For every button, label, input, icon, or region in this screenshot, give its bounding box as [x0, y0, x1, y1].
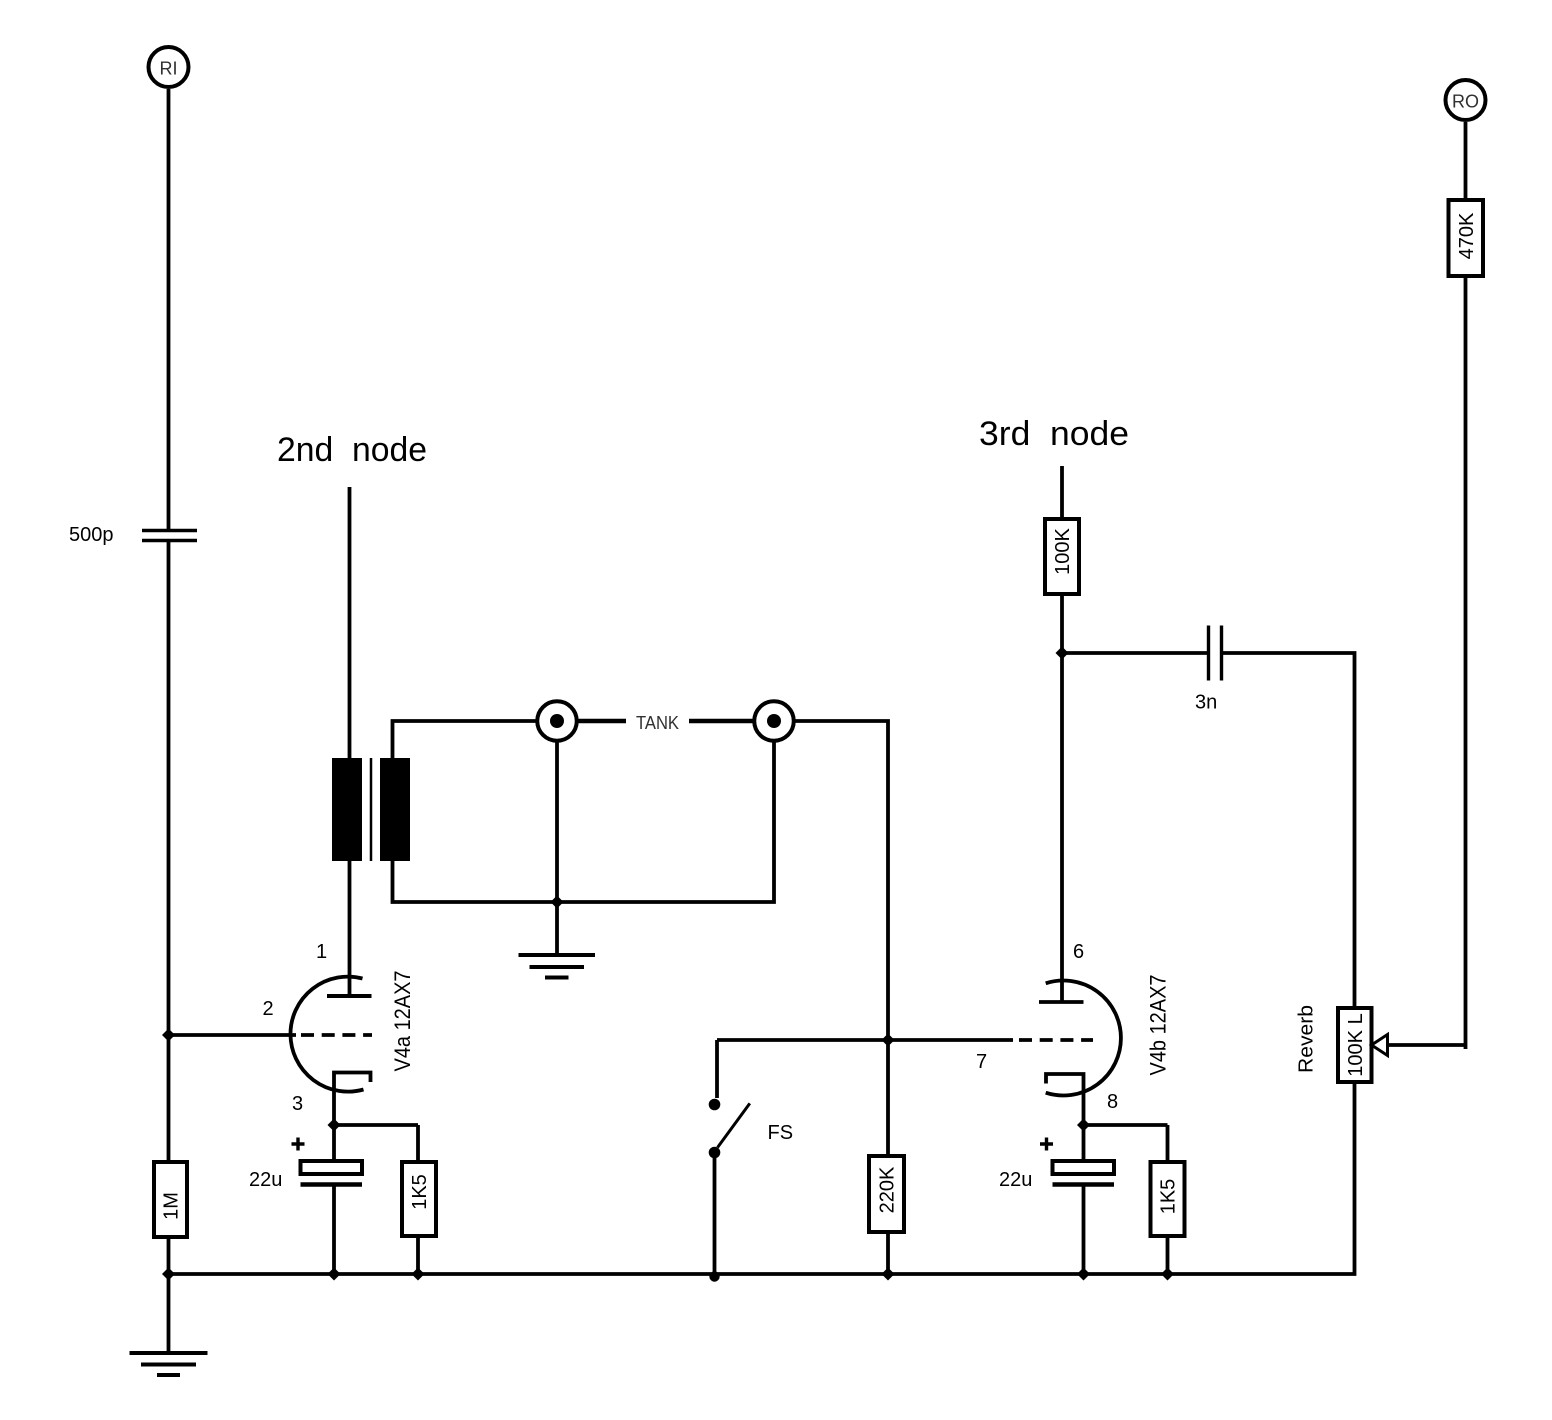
- svg-text:100K: 100K: [1052, 527, 1074, 574]
- svg-text:6: 6: [1073, 941, 1084, 963]
- svg-text:2nd node: 2nd node: [277, 431, 427, 469]
- svg-text:8: 8: [1107, 1091, 1118, 1113]
- svg-text:500p: 500p: [69, 524, 114, 546]
- svg-text:1K5: 1K5: [1158, 1179, 1180, 1215]
- svg-text:3rd node: 3rd node: [979, 415, 1129, 453]
- svg-text:1K5: 1K5: [409, 1174, 431, 1210]
- svg-text:100K L: 100K L: [1345, 1013, 1367, 1076]
- svg-text:V4b 12AX7: V4b 12AX7: [1146, 975, 1171, 1076]
- svg-text:7: 7: [976, 1051, 987, 1073]
- svg-text:2: 2: [263, 998, 274, 1020]
- svg-text:3: 3: [292, 1093, 303, 1115]
- svg-text:220K: 220K: [877, 1166, 899, 1213]
- svg-text:FS: FS: [768, 1122, 794, 1144]
- svg-text:3n: 3n: [1195, 692, 1217, 714]
- svg-text:RO: RO: [1452, 92, 1479, 112]
- svg-text:TANK: TANK: [636, 713, 679, 733]
- svg-text:RI: RI: [160, 59, 178, 79]
- svg-text:470K: 470K: [1456, 212, 1478, 259]
- svg-text:V4a 12AX7: V4a 12AX7: [390, 971, 415, 1072]
- svg-text:22u: 22u: [249, 1169, 282, 1191]
- svg-text:Reverb: Reverb: [1296, 1005, 1318, 1073]
- svg-text:1: 1: [316, 941, 327, 963]
- svg-text:1M: 1M: [161, 1192, 183, 1220]
- svg-text:22u: 22u: [999, 1169, 1032, 1191]
